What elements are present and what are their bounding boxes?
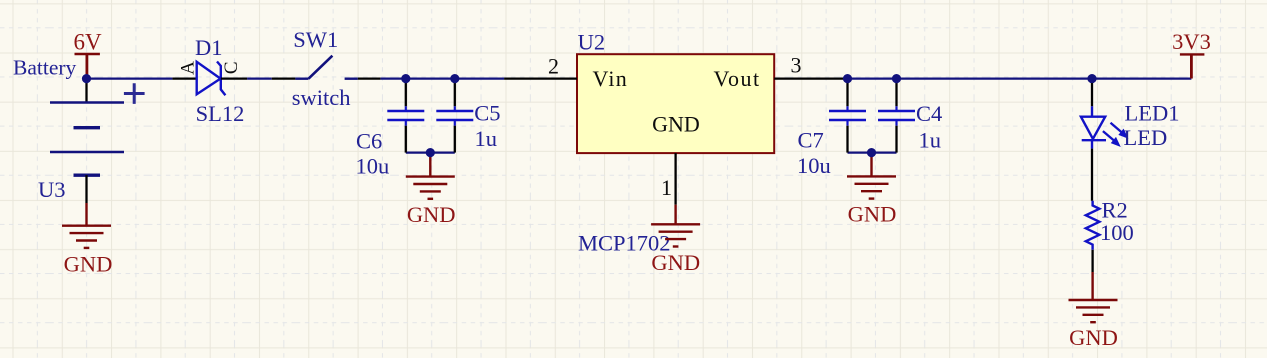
- U2 pin 2 Vin: [504, 53, 577, 78]
- junction node C4 top: [892, 74, 901, 83]
- svg-text:2: 2: [548, 53, 559, 78]
- switch right contact: [345, 77, 358, 79]
- U2 pin 3 Vout: [774, 53, 847, 79]
- wire LED anode pin: [1091, 83, 1093, 106]
- junction node C5 top: [450, 74, 459, 83]
- ground below R2: [1069, 272, 1118, 350]
- ground below C7 C4: [847, 154, 896, 227]
- wire diode D1 cathode to switch SW1: [247, 77, 272, 79]
- svg-text:6V: 6V: [73, 29, 102, 54]
- svg-text:1u: 1u: [475, 126, 498, 151]
- svg-text:LED1: LED1: [1125, 101, 1180, 126]
- svg-text:C4: C4: [916, 101, 942, 126]
- svg-text:C5: C5: [474, 101, 500, 126]
- svg-text:3: 3: [791, 53, 802, 78]
- svg-text:R2: R2: [1102, 198, 1128, 223]
- pin C cathode wire: [221, 77, 247, 79]
- diode schottky cathode bar: [217, 62, 225, 96]
- junction node battery 6V: [82, 74, 91, 83]
- svg-text:10u: 10u: [797, 153, 831, 178]
- svg-text:U3: U3: [38, 177, 66, 202]
- power port 6V: [73, 29, 102, 76]
- resistor R2 100: [1086, 198, 1134, 273]
- svg-text:GND: GND: [652, 111, 700, 136]
- LED1: [1081, 83, 1180, 201]
- svg-text:LED: LED: [1124, 125, 1168, 150]
- LED triangle: [1081, 117, 1105, 139]
- diode D1 SL12 schottky: [172, 35, 247, 126]
- svg-text:C6: C6: [356, 128, 382, 153]
- junction node C7 C4 ground: [867, 148, 876, 157]
- battery plus sign: [124, 83, 145, 104]
- svg-text:SL12: SL12: [196, 101, 245, 126]
- battery plate long top: [50, 101, 124, 103]
- wire battery bottom pin: [85, 175, 87, 203]
- svg-text:GND: GND: [1069, 325, 1118, 350]
- junction node C6 C5 ground: [426, 148, 435, 157]
- junction node C7 top: [843, 74, 852, 83]
- svg-text:U2: U2: [578, 30, 606, 55]
- LED emission arrow 2: [1103, 131, 1114, 140]
- power port 3V3: [1172, 29, 1211, 79]
- svg-text:GND: GND: [651, 250, 700, 275]
- pin right wire: [358, 77, 381, 79]
- svg-text:GND: GND: [64, 251, 113, 276]
- switch lever: [309, 56, 333, 79]
- battery U3: [38, 79, 145, 203]
- pin A anode wire: [172, 77, 196, 79]
- svg-text:3V3: 3V3: [1172, 29, 1211, 54]
- ground below battery: [62, 203, 112, 276]
- LED emission arrow 1: [1111, 123, 1122, 132]
- svg-text:SW1: SW1: [293, 27, 338, 52]
- diode triangle: [197, 62, 221, 95]
- regulator U2 MCP1702 body: [577, 30, 774, 256]
- wire U2 pin 3 to 3V3 power port (Vout net): [847, 77, 1191, 79]
- U2 pin 1 GND: [661, 153, 676, 205]
- capacitor C7 10u: [797, 80, 866, 179]
- junction node LED branch: [1087, 74, 1096, 83]
- svg-text:Vout: Vout: [714, 66, 761, 91]
- ground below C6 C5: [406, 154, 456, 227]
- wire ground rail under C6 C5: [406, 151, 455, 153]
- svg-text:C: C: [221, 61, 242, 74]
- svg-text:switch: switch: [292, 85, 351, 110]
- LED cathode bar: [1082, 139, 1106, 141]
- svg-text:100: 100: [1100, 220, 1134, 245]
- switch SW1: [272, 27, 381, 110]
- svg-text:1u: 1u: [919, 128, 942, 153]
- junction node C6 top: [401, 74, 410, 83]
- switch left contact: [295, 77, 308, 79]
- battery plate short bottom: [74, 173, 101, 176]
- ground below U2 pin 1: [651, 205, 700, 275]
- wire battery top pin: [85, 79, 87, 103]
- svg-text:1: 1: [661, 175, 672, 200]
- svg-text:C7: C7: [798, 128, 824, 153]
- svg-text:Battery: Battery: [13, 55, 77, 79]
- wire switch SW1 to U2 pin 2 (Vin net): [380, 77, 504, 79]
- svg-text:10u: 10u: [356, 154, 390, 179]
- wire LED cathode pin: [1091, 149, 1093, 201]
- capacitor C6 10u: [356, 80, 425, 179]
- svg-text:GND: GND: [407, 202, 456, 227]
- capacitor C4 1u: [878, 80, 942, 153]
- svg-text:GND: GND: [848, 202, 897, 227]
- svg-text:Vin: Vin: [593, 66, 629, 91]
- svg-text:A: A: [178, 61, 199, 75]
- capacitor C5 1u: [436, 80, 500, 153]
- pin left wire: [272, 77, 296, 79]
- battery plate short: [74, 126, 101, 129]
- wire ground rail under C7 C4: [848, 151, 897, 153]
- svg-text:D1: D1: [195, 35, 223, 60]
- battery plate long: [50, 151, 124, 153]
- wire net 6V: battery junction to diode D1 anode: [87, 77, 173, 79]
